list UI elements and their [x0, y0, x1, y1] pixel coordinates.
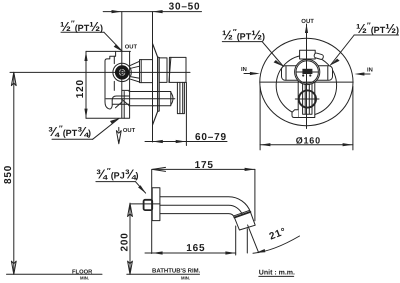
21 degree arc — [253, 236, 300, 253]
seam bold — [234, 212, 250, 218]
60-79 right extension — [185, 82, 187, 145]
wall line upper — [152, 12, 154, 142]
svg-text:OUT: OUT — [125, 44, 138, 51]
dimension 175 — [152, 168, 255, 170]
stem inner lines — [303, 80, 312, 114]
svg-text:165: 165 — [186, 243, 205, 254]
extension line through valve x=121.8 — [121, 12, 123, 118]
svg-text:OUT: OUT — [301, 18, 314, 25]
bar end cap seams — [286, 67, 328, 80]
nozzle — [234, 212, 255, 230]
floor line — [7, 273, 103, 275]
inner circle — [276, 55, 336, 115]
hollow down arrow bottom out — [118, 127, 120, 131]
handle bar — [282, 66, 333, 81]
nipple A — [160, 58, 170, 83]
175 right extension — [254, 169, 256, 220]
21 degree axis line — [248, 225, 259, 253]
leader to top out — [104, 32, 122, 51]
dimension 850 line — [13, 72, 15, 274]
spout tube inner — [160, 214, 235, 218]
svg-text:120: 120 — [75, 79, 86, 98]
horizontal centerline front — [260, 81, 353, 83]
dimension 60-79 — [145, 141, 227, 143]
valve body outline — [105, 51, 130, 118]
svg-text:175: 175 — [195, 160, 214, 171]
top double circle — [295, 59, 320, 84]
arrow: 850 top hollow — [11, 72, 16, 85]
svg-text:BATHTUB'S RIM.: BATHTUB'S RIM. — [152, 267, 201, 274]
svg-text:60–79: 60–79 — [195, 132, 227, 143]
dark rect — [302, 69, 312, 74]
flange — [152, 188, 160, 221]
wall line lower — [151, 169, 153, 253]
svg-text:850: 850 — [3, 165, 14, 184]
dimension 200 — [129, 203, 131, 274]
nipple B — [169, 57, 186, 82]
elbow diagonals — [116, 99, 130, 107]
pipe end dome — [171, 92, 173, 105]
port ring dark — [117, 67, 127, 77]
svg-text:IN: IN — [241, 67, 247, 73]
arrow 120 top — [84, 51, 87, 61]
wire: top extension y=51.4 — [86, 50, 130, 52]
dimension 120 line — [85, 51, 87, 118]
svg-text:MIN.: MIN. — [80, 275, 89, 280]
seam thin second line — [234, 210, 250, 216]
svg-text:30–50: 30–50 — [169, 1, 201, 12]
svg-text:OUT: OUT — [123, 127, 136, 134]
escutcheon upper profile — [153, 44, 158, 126]
bold nipple stub — [144, 200, 153, 210]
outer ellipse — [260, 38, 353, 125]
arrow 120 bottom — [84, 109, 87, 119]
21 degree arc arrowhead — [256, 249, 265, 253]
right tab — [314, 53, 324, 60]
svg-text:MIN.: MIN. — [181, 275, 190, 280]
stem white fill — [298, 80, 315, 118]
spout centerline — [130, 203, 160, 205]
bottom pipe — [129, 92, 153, 106]
union nut — [140, 60, 153, 83]
spout tube mid — [160, 205, 243, 214]
top rect — [300, 50, 316, 59]
pipe centerline — [106, 98, 175, 100]
bottom bold circle — [299, 90, 316, 107]
dots — [302, 74, 304, 76]
left tab on stem — [292, 110, 298, 118]
tall cap — [177, 82, 184, 113]
svg-text:200: 200 — [120, 232, 131, 251]
svg-text:Unit : m.m.: Unit : m.m. — [259, 269, 295, 277]
21 degree annotation: vertical reference — [246, 229, 248, 253]
svg-text:IN: IN — [367, 67, 373, 73]
svg-text:Ø160: Ø160 — [296, 135, 321, 145]
port inner detail — [120, 70, 124, 74]
bathtub rim line — [127, 273, 200, 275]
elbow hook curl — [112, 96, 129, 100]
nut after wall — [160, 92, 171, 106]
cartridge slot lines — [296, 71, 318, 73]
dimension Ø160 — [259, 87, 261, 150]
dimension 30-50 — [103, 11, 201, 13]
wire: bottom extension y=118.2 — [86, 117, 129, 119]
dimension 165 — [145, 252, 236, 254]
cone from port to nut — [130, 61, 140, 82]
wire: main top centerline left — [10, 71, 190, 73]
lower outlet inner lines — [113, 103, 129, 105]
spout tube outer — [160, 197, 251, 212]
arrow: 850 bottom hollow — [11, 261, 16, 274]
port circle outer — [113, 63, 131, 81]
vertical centerline front — [306, 24, 308, 129]
165 right extension — [235, 226, 237, 255]
